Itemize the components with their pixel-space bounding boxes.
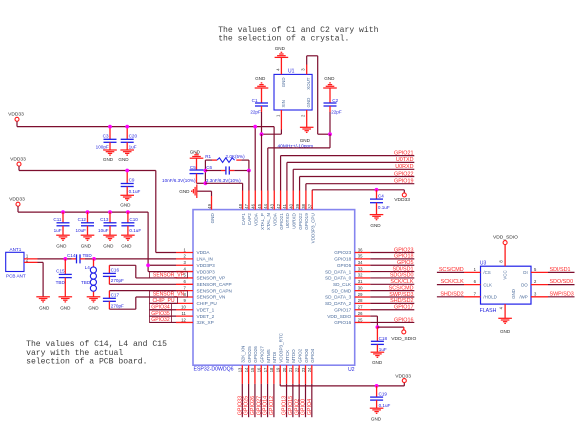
svg-text:0.1uF: 0.1uF <box>379 403 391 408</box>
svg-text:U0RXD: U0RXD <box>395 164 413 170</box>
svg-text:GND: GND <box>121 244 132 249</box>
svg-text:U2: U2 <box>348 367 355 373</box>
svg-text:TBD: TBD <box>83 253 93 258</box>
svg-text:SHD/SD2: SHD/SD2 <box>440 291 463 297</box>
svg-text:C11: C11 <box>53 217 62 222</box>
svg-text:VDD3P3_CPU: VDD3P3_CPU <box>311 213 316 243</box>
svg-text:SD_CLK: SD_CLK <box>333 282 352 287</box>
svg-text:GPIO22: GPIO22 <box>298 213 303 230</box>
svg-text:C2: C2 <box>332 98 338 103</box>
svg-text:VDDA: VDDA <box>254 212 259 226</box>
svg-text:0.1uF: 0.1uF <box>129 228 141 233</box>
svg-text:C14: C14 <box>67 253 76 258</box>
svg-text:U0TXD: U0TXD <box>285 213 290 229</box>
svg-text:GND: GND <box>371 416 382 421</box>
svg-text:32: 32 <box>358 273 363 278</box>
svg-text:49: 49 <box>207 203 212 208</box>
svg-text:17: 17 <box>263 367 268 372</box>
svg-text:43: 43 <box>270 203 275 208</box>
svg-text:VDD33: VDD33 <box>8 112 24 118</box>
svg-text:VDDA: VDDA <box>197 250 211 255</box>
svg-text:TBD: TBD <box>56 280 66 285</box>
svg-text:MTMS: MTMS <box>266 349 271 363</box>
svg-text:GPIO12: GPIO12 <box>269 396 275 415</box>
svg-text:GND: GND <box>281 78 286 88</box>
svg-text:36: 36 <box>358 247 363 252</box>
svg-text:38: 38 <box>301 203 306 208</box>
svg-text:40MHz+/-10ppm: 40MHz+/-10ppm <box>278 144 314 150</box>
svg-text:SHD/SD2: SHD/SD2 <box>390 298 413 304</box>
svg-text:26: 26 <box>358 311 363 316</box>
svg-text:VDET_2: VDET_2 <box>197 314 215 319</box>
svg-text:GPIO23: GPIO23 <box>334 250 351 255</box>
svg-text:28: 28 <box>358 298 363 303</box>
svg-text:GPIO21: GPIO21 <box>394 150 413 156</box>
svg-text:270pF: 270pF <box>111 278 124 283</box>
svg-text:SENSOR_CAPN: SENSOR_CAPN <box>197 288 232 293</box>
svg-text:VDET_1: VDET_1 <box>197 307 215 312</box>
svg-text:SDI/SD1: SDI/SD1 <box>393 266 414 272</box>
svg-text:10nF/6.3V(10%): 10nF/6.3V(10%) <box>162 178 196 183</box>
svg-text:44: 44 <box>263 203 268 208</box>
svg-text:1uF: 1uF <box>129 145 137 150</box>
svg-text:C16: C16 <box>111 268 120 273</box>
svg-text:R1: R1 <box>205 154 211 159</box>
svg-text:MTDO: MTDO <box>291 349 296 363</box>
svg-text:TBD: TBD <box>81 280 91 285</box>
svg-text:GPIO32: GPIO32 <box>151 317 170 323</box>
svg-text:GND: GND <box>511 289 516 299</box>
svg-text:SWP/SD3: SWP/SD3 <box>389 292 413 298</box>
svg-text:L4: L4 <box>85 265 91 270</box>
svg-text:10uF: 10uF <box>98 228 109 233</box>
svg-text:GND: GND <box>255 76 266 81</box>
svg-text:GND: GND <box>324 76 335 81</box>
svg-text:20: 20 <box>282 367 287 372</box>
svg-text:39: 39 <box>295 203 300 208</box>
svg-text:SENSOR_VN: SENSOR_VN <box>197 295 226 300</box>
svg-text:GND: GND <box>103 157 114 162</box>
svg-text:GND: GND <box>500 329 511 334</box>
svg-text:GND: GND <box>210 213 215 224</box>
svg-text:ESP32-D0WDQ6: ESP32-D0WDQ6 <box>194 367 234 373</box>
svg-text:VDD_SDIO: VDD_SDIO <box>327 314 351 319</box>
svg-text:SD_DATA_2: SD_DATA_2 <box>325 301 352 306</box>
svg-text:CHIP_PU: CHIP_PU <box>197 301 218 306</box>
svg-text:45: 45 <box>257 203 262 208</box>
svg-text:SD_DATA_3: SD_DATA_3 <box>325 295 352 300</box>
svg-text:47: 47 <box>244 203 249 208</box>
svg-text:10uF: 10uF <box>76 228 87 233</box>
svg-text:CAP2: CAP2 <box>247 213 252 225</box>
svg-text:31: 31 <box>358 279 363 284</box>
svg-text:33: 33 <box>358 266 363 271</box>
svg-text:GND: GND <box>81 244 92 249</box>
svg-text:C1: C1 <box>252 98 258 103</box>
svg-text:GPIO19: GPIO19 <box>394 179 413 185</box>
svg-text:GPIO33: GPIO33 <box>237 396 243 415</box>
svg-text:C3: C3 <box>103 133 109 138</box>
svg-text:24: 24 <box>307 367 312 372</box>
svg-text:37: 37 <box>308 203 313 208</box>
svg-text:C10: C10 <box>129 217 138 222</box>
svg-text:VDD3P3: VDD3P3 <box>197 263 216 268</box>
svg-text:22pF: 22pF <box>331 110 342 115</box>
svg-text:SDO/SD0: SDO/SD0 <box>550 279 574 285</box>
svg-text:32K_XP: 32K_XP <box>197 320 214 325</box>
svg-text:1uF: 1uF <box>379 347 387 352</box>
svg-text:46: 46 <box>251 203 256 208</box>
svg-text:270pF: 270pF <box>111 304 124 309</box>
svg-text:C20: C20 <box>129 133 138 138</box>
svg-text:35: 35 <box>358 254 363 259</box>
svg-text:GND: GND <box>120 203 131 208</box>
svg-text:GPIO18: GPIO18 <box>334 257 351 262</box>
svg-text:C12: C12 <box>78 217 87 222</box>
svg-text:GPIO23: GPIO23 <box>394 247 413 253</box>
svg-text:SD_DATA_0: SD_DATA_0 <box>325 276 352 281</box>
svg-text:VDD33: VDD33 <box>9 197 25 203</box>
svg-text:SCK/CLK: SCK/CLK <box>390 279 413 285</box>
svg-text:2.0K(5%): 2.0K(5%) <box>226 154 246 159</box>
svg-text:GND: GND <box>179 189 190 194</box>
svg-text:GPIO2: GPIO2 <box>294 399 300 415</box>
svg-text:GPIO4: GPIO4 <box>307 399 313 415</box>
svg-text:GPIO0: GPIO0 <box>304 348 309 362</box>
svg-text:GND: GND <box>118 157 129 162</box>
svg-text:15: 15 <box>250 367 255 372</box>
svg-text:VDD_SDIO: VDD_SDIO <box>493 235 518 241</box>
svg-text:GND: GND <box>39 306 50 311</box>
svg-text:C13: C13 <box>100 217 109 222</box>
svg-text:GPIO16: GPIO16 <box>394 317 413 323</box>
svg-text:SCK/CLK: SCK/CLK <box>441 279 464 285</box>
svg-text:XTAL_P: XTAL_P <box>260 213 265 230</box>
svg-text:13: 13 <box>238 367 243 372</box>
svg-text:LNA_IN: LNA_IN <box>197 257 213 262</box>
svg-text:the selection of a crystal.: the selection of a crystal. <box>218 35 349 44</box>
svg-text:C15: C15 <box>56 268 65 273</box>
svg-text:GND: GND <box>190 149 201 154</box>
svg-text:C6: C6 <box>206 165 212 170</box>
svg-text:PCB ANT: PCB ANT <box>6 273 26 278</box>
svg-text:GPIO2: GPIO2 <box>297 348 302 362</box>
svg-text:GPIO17: GPIO17 <box>334 307 351 312</box>
svg-text:FLASH: FLASH <box>480 308 497 314</box>
svg-text:27: 27 <box>358 305 363 310</box>
svg-text:GPIO19: GPIO19 <box>304 213 309 230</box>
svg-text:GND: GND <box>306 98 311 108</box>
svg-text:22pF: 22pF <box>250 110 261 115</box>
svg-text:18: 18 <box>269 367 274 372</box>
svg-text:GND: GND <box>370 223 381 228</box>
svg-text:MTCK: MTCK <box>285 349 290 363</box>
svg-text:DO: DO <box>521 282 528 287</box>
svg-text:12: 12 <box>181 317 186 322</box>
svg-text:GPIO5: GPIO5 <box>397 260 413 266</box>
svg-text:SD_DATA_1: SD_DATA_1 <box>325 269 352 274</box>
svg-text:SD_CMD: SD_CMD <box>331 288 351 293</box>
svg-text:VDD3P3_RTC: VDD3P3_RTC <box>279 332 284 362</box>
svg-text:40: 40 <box>289 203 294 208</box>
svg-text:GPIO26: GPIO26 <box>250 396 256 415</box>
svg-text:GND: GND <box>300 138 311 143</box>
svg-text:SDI/SD1: SDI/SD1 <box>550 267 571 273</box>
svg-text:GPIO26: GPIO26 <box>253 346 258 363</box>
svg-text:GND: GND <box>88 306 99 311</box>
svg-text:/WP: /WP <box>519 295 527 300</box>
svg-text:GPIO5: GPIO5 <box>337 263 352 268</box>
svg-text:GND: GND <box>103 244 114 249</box>
svg-text:19: 19 <box>276 367 281 372</box>
svg-text:GPIO27: GPIO27 <box>260 346 265 363</box>
svg-text:C17: C17 <box>111 293 120 298</box>
svg-text:GPIO14: GPIO14 <box>263 396 269 415</box>
svg-text:SENSOR_VP: SENSOR_VP <box>197 276 226 281</box>
svg-text:C19: C19 <box>379 392 388 397</box>
svg-text:U1: U1 <box>288 68 295 74</box>
svg-text:SENSOR_VP: SENSOR_VP <box>153 273 185 279</box>
svg-text:XTAL_N: XTAL_N <box>266 213 271 230</box>
svg-text:14: 14 <box>244 367 249 372</box>
svg-text:SCS/CMD: SCS/CMD <box>439 267 464 273</box>
svg-text:C9: C9 <box>129 178 135 183</box>
svg-text:GPIO4: GPIO4 <box>310 348 315 362</box>
svg-text:SWP/SD3: SWP/SD3 <box>550 291 574 297</box>
svg-text:30: 30 <box>358 285 363 290</box>
svg-text:GPIO22: GPIO22 <box>394 171 413 177</box>
svg-text:32K_XN: 32K_XN <box>241 346 246 363</box>
svg-text:/HOLD: /HOLD <box>483 295 496 300</box>
svg-text:25: 25 <box>358 317 363 322</box>
svg-text:3.3nF/6.3V(10%): 3.3nF/6.3V(10%) <box>206 178 241 183</box>
svg-text:41: 41 <box>282 203 287 208</box>
svg-text:XIN: XIN <box>281 100 286 107</box>
svg-text:VDD33: VDD33 <box>10 157 26 163</box>
svg-text:/CS: /CS <box>483 270 490 275</box>
svg-text:GPIO16: GPIO16 <box>334 320 351 325</box>
svg-text:GPIO15: GPIO15 <box>288 396 294 415</box>
svg-text:16: 16 <box>257 367 262 372</box>
svg-text:CAP1: CAP1 <box>241 213 246 225</box>
svg-text:ANT1: ANT1 <box>10 247 22 252</box>
svg-text:selection of a PCB board.: selection of a PCB board. <box>26 357 147 366</box>
svg-text:U0RXD: U0RXD <box>292 213 297 229</box>
svg-text:MTDI: MTDI <box>272 352 277 363</box>
svg-text:SENSOR_CAPP: SENSOR_CAPP <box>197 282 232 287</box>
svg-text:23: 23 <box>301 367 306 372</box>
svg-text:VDDA: VDDA <box>273 212 278 226</box>
svg-text:34: 34 <box>358 260 363 265</box>
svg-text:U0TXD: U0TXD <box>396 157 414 163</box>
svg-text:21: 21 <box>288 367 293 372</box>
svg-text:XOUT: XOUT <box>306 77 311 90</box>
svg-text:10: 10 <box>181 305 186 310</box>
svg-text:C5: C5 <box>190 165 196 170</box>
svg-text:GND: GND <box>56 244 67 249</box>
svg-text:GPIO27: GPIO27 <box>256 396 262 415</box>
svg-text:1uF: 1uF <box>54 228 62 233</box>
svg-text:VDD_SDIO: VDD_SDIO <box>391 336 416 342</box>
svg-text:GPIO18: GPIO18 <box>394 254 413 260</box>
svg-text:GND: GND <box>275 46 286 51</box>
svg-text:VDD3P3: VDD3P3 <box>197 269 216 274</box>
svg-text:VCC: VCC <box>502 270 507 279</box>
svg-text:GND: GND <box>60 306 71 311</box>
svg-text:0.1uF: 0.1uF <box>378 205 390 210</box>
svg-text:C18: C18 <box>379 336 388 341</box>
svg-text:GPIO25: GPIO25 <box>244 396 250 415</box>
svg-text:GND: GND <box>372 360 383 365</box>
svg-text:GPIO21: GPIO21 <box>279 213 284 230</box>
svg-text:U3: U3 <box>480 260 487 266</box>
svg-text:GPIO17: GPIO17 <box>394 305 413 311</box>
svg-text:GPIO0: GPIO0 <box>301 399 307 415</box>
svg-text:11: 11 <box>181 311 186 316</box>
svg-text:DI: DI <box>523 270 527 275</box>
svg-text:0.1uF: 0.1uF <box>129 189 141 194</box>
svg-text:VDD33: VDD33 <box>395 373 411 379</box>
svg-text:VDD33: VDD33 <box>394 197 410 203</box>
svg-text:22: 22 <box>294 367 299 372</box>
svg-text:C4: C4 <box>378 194 384 199</box>
svg-text:42: 42 <box>276 203 281 208</box>
svg-text:SCS/CMD: SCS/CMD <box>389 285 414 291</box>
svg-text:48: 48 <box>238 203 243 208</box>
svg-text:100pF: 100pF <box>96 145 109 150</box>
svg-text:GPIO25: GPIO25 <box>247 346 252 363</box>
svg-text:SDO/SD0: SDO/SD0 <box>390 273 414 279</box>
svg-text:GPIO13: GPIO13 <box>282 396 288 415</box>
svg-text:CLK: CLK <box>483 282 492 287</box>
svg-text:29: 29 <box>358 292 363 297</box>
